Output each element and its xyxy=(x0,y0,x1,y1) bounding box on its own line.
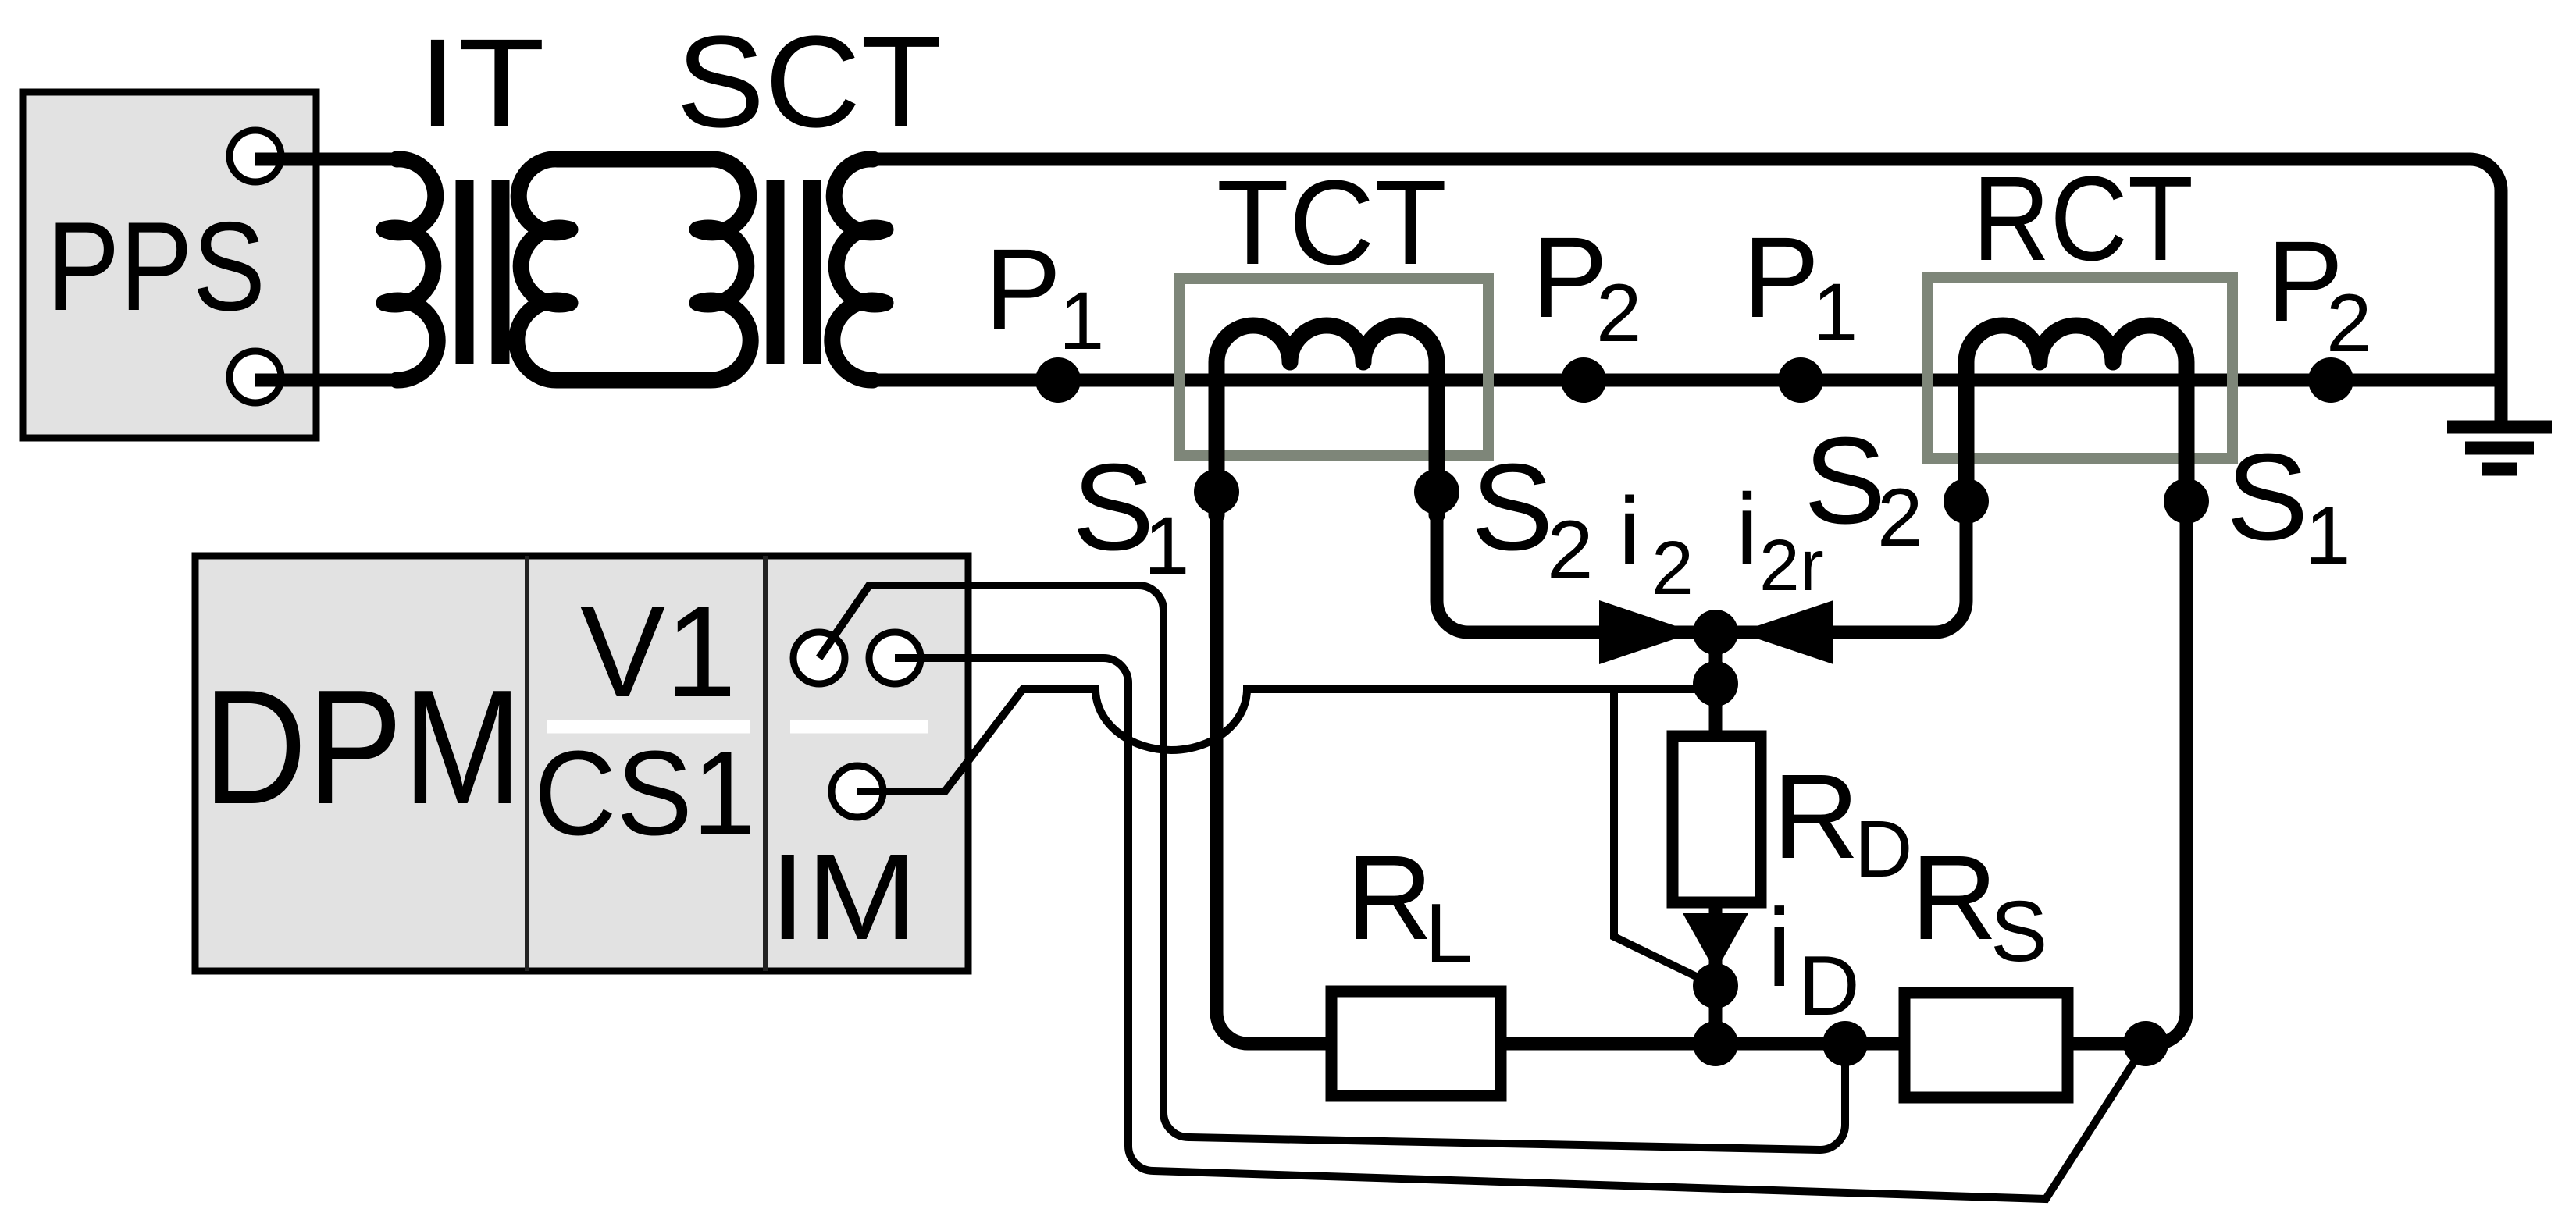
IT primary winding xyxy=(384,159,437,380)
wire main rail xyxy=(873,374,2501,387)
svg-text:S: S xyxy=(1990,884,2047,980)
node below junction xyxy=(1693,661,1738,706)
SCT secondary winding xyxy=(832,159,885,380)
resistor RL xyxy=(1331,991,1501,1096)
svg-text:2: 2 xyxy=(2326,278,2371,369)
node S1 RCT xyxy=(2164,478,2209,524)
svg-text:P: P xyxy=(985,226,1061,354)
power source PPS box xyxy=(23,92,316,438)
wire PPS top terminal to IT primary xyxy=(255,153,398,166)
wire junction down to RD xyxy=(1709,632,1723,736)
terminal PPS top xyxy=(230,130,281,182)
svg-text:S: S xyxy=(1072,439,1154,576)
svg-text:P: P xyxy=(1743,214,1819,342)
IT secondary winding xyxy=(517,159,570,380)
wire IT secondary to SCT primary (bottom) xyxy=(558,372,710,389)
TCT gray box xyxy=(1179,279,1488,455)
svg-text:1: 1 xyxy=(1812,267,1858,358)
svg-text:S: S xyxy=(2226,429,2308,566)
svg-text:2: 2 xyxy=(1651,525,1694,610)
wire RCT S1 down to RS node xyxy=(2146,507,2186,1044)
svg-text:V1: V1 xyxy=(580,580,736,724)
svg-text:R: R xyxy=(1911,831,1997,965)
svg-text:D: D xyxy=(1855,804,1912,894)
node P1 RCT xyxy=(1778,357,1823,403)
svg-text:TCT: TCT xyxy=(1217,155,1447,290)
wire RCT S2 down and left to i2r node xyxy=(1716,507,1966,632)
wire branch to iD node xyxy=(1614,687,1716,986)
svg-text:1: 1 xyxy=(1144,500,1189,592)
node S1 TCT xyxy=(1194,469,1239,514)
PPS box outline xyxy=(23,92,316,438)
svg-text:DPM: DPM xyxy=(203,656,522,838)
node iD bottom xyxy=(1693,1021,1738,1066)
arrow i2 xyxy=(1599,600,1694,664)
node S2 RCT xyxy=(1944,478,1989,524)
wire RD bottom to rail xyxy=(1709,902,1723,1044)
svg-text:1: 1 xyxy=(2305,490,2350,582)
wire TCT S1 vertical down to RL rail xyxy=(1217,507,1331,1044)
arrow i2r xyxy=(1738,600,1833,664)
node P2 RCT xyxy=(2308,357,2353,403)
svg-text:R: R xyxy=(1773,749,1859,884)
DPM box outline xyxy=(195,556,968,971)
IT core xyxy=(465,180,501,364)
terminal DPM IM xyxy=(832,766,883,817)
wire PPS bottom terminal to IT primary xyxy=(255,374,398,387)
node DPM tap xyxy=(1822,1021,1868,1066)
node iD xyxy=(1693,963,1738,1008)
wire RS to S1 node xyxy=(2068,1037,2146,1051)
svg-text:RCT: RCT xyxy=(1972,151,2193,286)
resistor RS xyxy=(1904,993,2068,1097)
TCT coil xyxy=(1217,325,1437,515)
node P2 TCT xyxy=(1561,357,1606,403)
RCT coil xyxy=(1966,325,2186,515)
wire DPM T3 to node below junction (with hop) xyxy=(857,684,1716,791)
svg-text:S: S xyxy=(1471,439,1553,576)
svg-text:2: 2 xyxy=(1877,472,1922,564)
terminal DPM V1a xyxy=(793,632,845,684)
SCT primary winding xyxy=(697,159,750,380)
svg-text:i: i xyxy=(1619,478,1640,585)
RCT gray box xyxy=(1927,278,2232,458)
wire top rail to ground corner xyxy=(873,159,2501,427)
wire TCT S2 down and right to i2 node xyxy=(1437,507,1716,632)
meter DPM box xyxy=(195,556,968,971)
wire RL to RS rail xyxy=(1501,1037,1904,1051)
svg-text:IT: IT xyxy=(418,12,545,152)
node S2 TCT xyxy=(1414,469,1459,514)
svg-text:SCT: SCT xyxy=(676,9,942,155)
resistor RD xyxy=(1673,736,1761,902)
svg-text:S: S xyxy=(1804,412,1886,550)
DPM fraction bars xyxy=(547,720,928,734)
svg-text:PPS: PPS xyxy=(47,196,265,337)
arrow iD xyxy=(1683,913,1748,972)
wire IT secondary to SCT primary (top) xyxy=(558,151,710,168)
svg-text:i: i xyxy=(1736,472,1758,586)
terminal DPM V1b xyxy=(869,632,921,684)
wire DPM T2 to lower return rail xyxy=(895,658,2146,1199)
node RS right xyxy=(2123,1021,2168,1066)
terminal PPS bottom xyxy=(230,351,281,403)
wire DPM T1 to upper return rail xyxy=(819,585,1845,1150)
svg-text:2: 2 xyxy=(1596,268,1641,359)
ground xyxy=(2447,427,2552,469)
node P1 TCT xyxy=(1035,357,1081,403)
svg-text:1: 1 xyxy=(1059,276,1104,367)
svg-text:2: 2 xyxy=(1547,503,1594,596)
svg-text:L: L xyxy=(1425,886,1473,981)
svg-text:D: D xyxy=(1798,938,1860,1033)
svg-text:IM: IM xyxy=(769,829,917,966)
SCT core xyxy=(775,180,812,364)
node junction i2/i2r xyxy=(1693,610,1738,655)
svg-text:R: R xyxy=(1346,831,1433,965)
DPM section dividers xyxy=(527,556,765,971)
svg-text:i: i xyxy=(1767,886,1792,1010)
svg-text:CS1: CS1 xyxy=(534,726,756,860)
